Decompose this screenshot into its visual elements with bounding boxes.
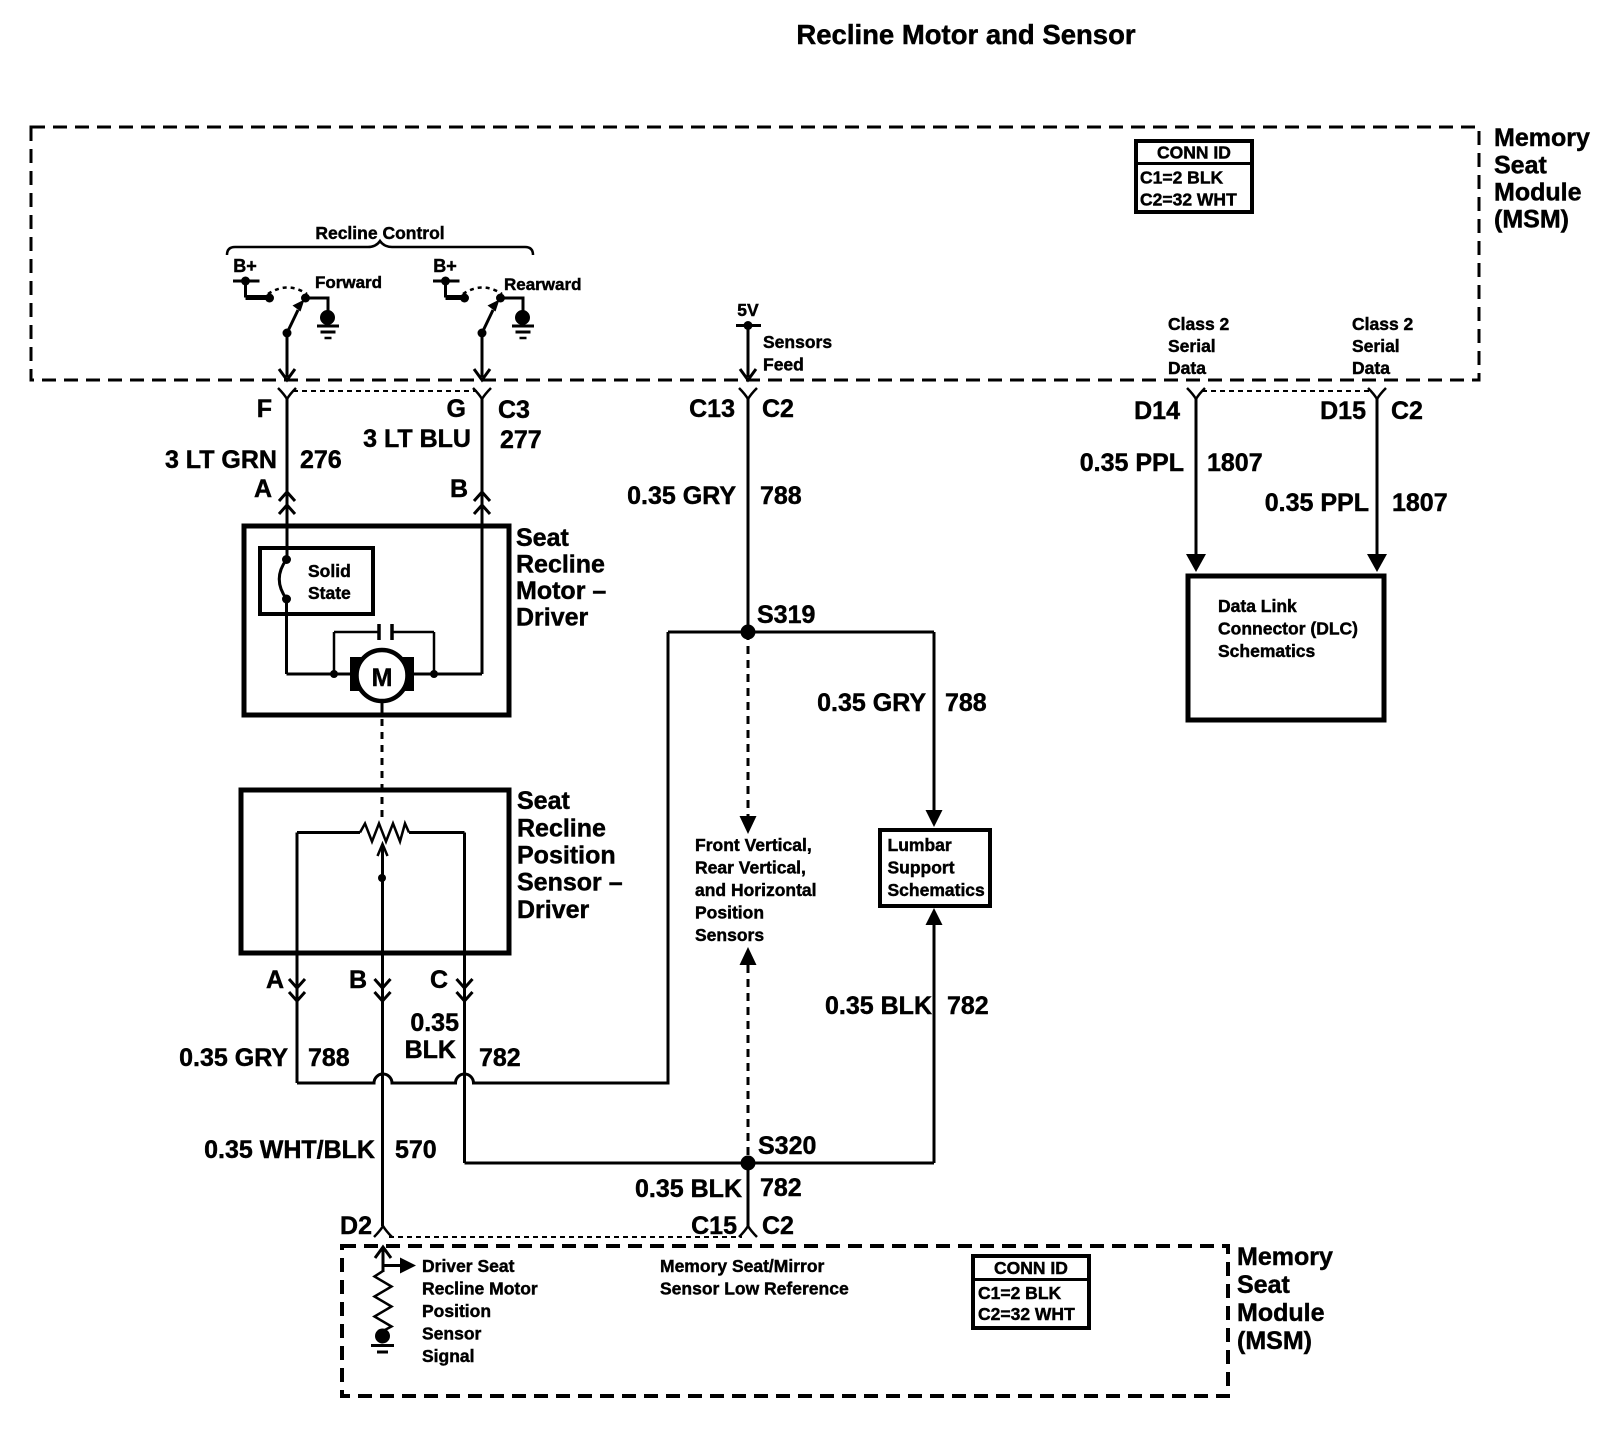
svg-text:CONN ID: CONN ID: [1157, 143, 1231, 163]
svg-text:Sensor: Sensor: [422, 1324, 482, 1344]
svg-text:5V: 5V: [737, 300, 759, 320]
svg-text:CONN ID: CONN ID: [994, 1258, 1068, 1278]
module box Memory Seat Module (MSM) top (dashed): [31, 127, 1479, 380]
label Sensors Feed: [763, 332, 832, 375]
svg-text:Recline: Recline: [517, 815, 606, 843]
module box Memory Seat Module (MSM) bottom (dashed): [342, 1246, 1228, 1396]
svg-text:0.35 BLK: 0.35 BLK: [825, 992, 932, 1020]
motor M (seat recline motor): [350, 650, 414, 701]
box Seat Recline Position Sensor - Driver: [241, 790, 509, 953]
connector fork G: [473, 388, 491, 399]
connector fork D14: [1187, 388, 1205, 399]
wire label 0.35 BLK 782 (pin C): [405, 1009, 521, 1072]
svg-text:782: 782: [760, 1174, 802, 1202]
svg-text:276: 276: [300, 446, 342, 474]
svg-text:Recline Motor: Recline Motor: [422, 1279, 538, 1299]
svg-text:F: F: [257, 395, 272, 423]
svg-text:Sensor Low Reference: Sensor Low Reference: [660, 1279, 849, 1299]
svg-text:B: B: [450, 475, 468, 503]
wire label 0.35 GRY 788 (lumbar): [817, 689, 987, 717]
svg-text:S319: S319: [757, 601, 815, 629]
wire label 0.35 PPL 1807 (D14): [1080, 449, 1263, 477]
svg-text:0.35 PPL: 0.35 PPL: [1265, 489, 1369, 517]
svg-text:Support: Support: [888, 858, 955, 878]
svg-text:B+: B+: [433, 256, 457, 276]
B+ terminal right: [433, 256, 460, 298]
svg-text:0.35 WHT/BLK: 0.35 WHT/BLK: [204, 1136, 375, 1164]
position sensor potentiometer: [297, 824, 465, 954]
svg-text:Feed: Feed: [763, 355, 804, 375]
wire C13 sensors feed to S319 (circuit 788): [747, 399, 750, 632]
svg-text:B+: B+: [233, 256, 257, 276]
svg-text:Data: Data: [1168, 358, 1206, 378]
label Front Vertical Rear Vertical and Horizontal Position Sensors: [695, 835, 817, 945]
wire label 0.35 BLK 782 (C15): [635, 1174, 802, 1203]
wire F from switch to module edge: [279, 333, 295, 380]
svg-text:Sensor –: Sensor –: [517, 869, 623, 897]
svg-text:Memory: Memory: [1494, 124, 1590, 152]
svg-text:0.35 GRY: 0.35 GRY: [179, 1044, 288, 1072]
svg-text:Front Vertical,: Front Vertical,: [695, 835, 812, 855]
svg-text:0.35 GRY: 0.35 GRY: [627, 482, 736, 510]
pin label F: [257, 395, 272, 423]
pin label C2 (right): [1391, 397, 1423, 425]
svg-text:C2=32 WHT: C2=32 WHT: [1140, 190, 1237, 210]
wire G from switch to module edge: [474, 333, 490, 380]
svg-text:Motor –: Motor –: [516, 577, 606, 605]
svg-text:Class 2: Class 2: [1352, 314, 1414, 334]
svg-text:782: 782: [479, 1044, 521, 1072]
wire S320 horizontal: [465, 1162, 935, 1165]
label Memory Seat Module (MSM) bottom right: [1237, 1243, 1333, 1355]
connector ID table top (CONN ID C1=2 BLK C2=32 WHT): [1136, 141, 1252, 212]
svg-text:Schematics: Schematics: [888, 880, 986, 900]
wire F to motor box (circuit 276): [286, 399, 289, 526]
B+ terminal left: [233, 256, 260, 298]
box Data Link Connector (DLC) Schematics: [1188, 576, 1384, 720]
label Seat Recline Position Sensor - Driver: [517, 787, 623, 924]
pin label C13: [689, 395, 735, 423]
svg-text:D14: D14: [1134, 397, 1180, 425]
connector fork F: [278, 388, 296, 399]
svg-text:Seat: Seat: [1494, 152, 1547, 180]
svg-text:B: B: [349, 966, 367, 994]
pin label B (motor): [450, 475, 468, 503]
svg-text:S320: S320: [758, 1132, 816, 1160]
svg-text:0.35 BLK: 0.35 BLK: [635, 1175, 742, 1203]
svg-text:788: 788: [945, 689, 987, 717]
wire into solid state: [286, 526, 289, 560]
title Recline Motor and Sensor: [796, 19, 1136, 50]
label Seat Recline Motor - Driver: [516, 524, 606, 632]
label S320: [758, 1132, 816, 1160]
svg-text:Forward: Forward: [315, 273, 382, 292]
svg-text:788: 788: [760, 482, 802, 510]
inline connector chevrons pin B: [375, 979, 391, 1001]
inline connector chevrons wire F: [279, 492, 295, 514]
wire D15 class 2 serial data (circuit 1807): [1367, 399, 1387, 572]
svg-text:Memory: Memory: [1237, 1243, 1333, 1271]
svg-text:Sensors: Sensors: [695, 925, 764, 945]
svg-text:Schematics: Schematics: [1218, 641, 1316, 661]
inline connector chevrons wire G: [474, 492, 490, 514]
wire G to motor box (circuit 277): [481, 399, 484, 526]
svg-text:Driver Seat: Driver Seat: [422, 1256, 515, 1276]
pin label A (motor): [254, 475, 272, 503]
pin label A (sensor): [266, 966, 284, 994]
svg-text:Position: Position: [695, 903, 764, 923]
svg-text:Driver: Driver: [517, 896, 590, 924]
svg-text:Lumbar: Lumbar: [888, 835, 952, 855]
svg-text:Module: Module: [1237, 1299, 1325, 1327]
svg-text:Seat: Seat: [1237, 1271, 1290, 1299]
svg-text:A: A: [254, 475, 272, 503]
wire label 3 LT GRN 276: [165, 446, 342, 474]
ground (bottom MSM): [371, 1329, 394, 1353]
connector fork D15: [1368, 388, 1386, 399]
svg-text:Recline Motor and Sensor: Recline Motor and Sensor: [796, 19, 1136, 50]
wire S319 to lumbar support (circuit 788): [926, 632, 943, 827]
svg-text:Rearward: Rearward: [504, 275, 581, 294]
pin label D2: [340, 1212, 372, 1240]
wire D14 class 2 serial data (circuit 1807): [1186, 399, 1206, 572]
wire solid state to motor left brush: [287, 599, 351, 674]
connector fork D2: [374, 1226, 392, 1237]
connector pair line D2-C15 (fine dashed): [389, 1236, 742, 1238]
dashed mechanical link motor to position sensor: [381, 719, 384, 820]
label Forward: [315, 273, 382, 292]
svg-text:Solid: Solid: [308, 561, 351, 581]
connector ID table bottom (CONN ID C1=2 BLK C2=32 WHT): [973, 1256, 1089, 1328]
pin label C (sensor): [430, 966, 448, 994]
svg-text:Driver: Driver: [516, 604, 589, 632]
label Memory Seat/Mirror Sensor Low Reference: [660, 1256, 849, 1299]
svg-text:Serial: Serial: [1352, 336, 1400, 356]
svg-text:Module: Module: [1494, 179, 1582, 207]
svg-text:Sensors: Sensors: [763, 332, 832, 352]
brace recline control: [227, 241, 533, 255]
pin label C3: [498, 396, 530, 424]
label Class 2 Serial Data (D14): [1168, 314, 1230, 378]
solid state switch arc: [279, 555, 291, 604]
svg-text:Position: Position: [422, 1301, 491, 1321]
svg-text:C2: C2: [1391, 397, 1423, 425]
svg-text:M: M: [372, 664, 393, 692]
svg-text:Position: Position: [517, 842, 616, 870]
svg-text:C2: C2: [762, 395, 794, 423]
box Lumbar Support Schematics: [880, 830, 990, 906]
pin label G: [447, 395, 466, 423]
svg-text:3 LT BLU: 3 LT BLU: [363, 425, 471, 453]
ground right switch: [512, 310, 534, 338]
svg-text:C13: C13: [689, 395, 735, 423]
svg-text:Seat: Seat: [517, 787, 570, 815]
svg-text:(MSM): (MSM): [1494, 206, 1569, 234]
capacitor across motor: [330, 624, 438, 678]
sensor signal input arrow (D2 internal): [375, 1247, 416, 1274]
pin label C15: [691, 1212, 737, 1240]
resistor (sensor signal pull): [375, 1271, 392, 1331]
svg-text:(MSM): (MSM): [1237, 1327, 1312, 1355]
inline connector chevrons pin C: [457, 979, 473, 1001]
pin label C2 (bottom): [762, 1212, 794, 1240]
motor output stub: [381, 701, 384, 716]
connector pair line D14-D15 (fine dashed): [1202, 390, 1371, 392]
solid state box: [260, 548, 373, 614]
pin label B (sensor): [349, 966, 367, 994]
wire pin C down (circuit 782): [463, 953, 466, 1163]
switch Forward (recline control): [246, 288, 329, 338]
wire label 0.35 WHT/BLK 570 (pin B): [204, 1136, 437, 1164]
pin label C2 (top): [762, 395, 794, 423]
wire lumbar support to S320 (circuit 782, up arrow): [926, 908, 943, 1163]
svg-text:C15: C15: [691, 1212, 737, 1240]
label Recline Control: [315, 223, 444, 243]
svg-text:Data: Data: [1352, 358, 1390, 378]
svg-text:Data Link: Data Link: [1218, 596, 1297, 616]
svg-text:Memory Seat/Mirror: Memory Seat/Mirror: [660, 1256, 825, 1276]
wire label 0.35 BLK 782 (lumbar): [825, 992, 989, 1020]
svg-text:0.35 PPL: 0.35 PPL: [1080, 449, 1184, 477]
dashed wire position sensors to S320 (up arrow): [740, 947, 757, 1163]
svg-text:0.35 GRY: 0.35 GRY: [817, 689, 926, 717]
svg-text:C3: C3: [498, 396, 530, 424]
label Memory Seat Module (MSM) top right: [1494, 124, 1590, 234]
svg-text:C2: C2: [762, 1212, 794, 1240]
box Seat Recline Motor - Driver: [244, 526, 509, 715]
svg-text:D2: D2: [340, 1212, 372, 1240]
svg-text:Connector (DLC): Connector (DLC): [1218, 619, 1358, 639]
splice S319: [741, 625, 756, 640]
svg-text:788: 788: [308, 1044, 350, 1072]
svg-text:and Horizontal: and Horizontal: [695, 880, 817, 900]
wire label 0.35 GRY 788 (pin A): [179, 1044, 350, 1072]
ground left switch: [317, 310, 339, 338]
svg-text:D15: D15: [1320, 397, 1366, 425]
connector fork C13: [739, 388, 757, 399]
wire pin B down (circuit 570): [381, 953, 384, 1226]
svg-text:1807: 1807: [1207, 449, 1263, 477]
svg-text:Recline: Recline: [516, 551, 605, 579]
label S319: [757, 601, 815, 629]
svg-text:C1=2 BLK: C1=2 BLK: [1140, 168, 1224, 188]
svg-text:Signal: Signal: [422, 1346, 475, 1366]
svg-text:C: C: [430, 966, 448, 994]
label Rearward: [504, 275, 581, 294]
pin label D15: [1320, 397, 1366, 425]
svg-text:570: 570: [395, 1136, 437, 1164]
label Driver Seat Recline Motor Position Sensor Signal: [422, 1256, 538, 1366]
dashed wire S319 to position sensors (down arrow): [740, 632, 757, 834]
wire S320 to C15 (circuit 782): [747, 1163, 750, 1226]
wire label 3 LT BLU 277: [363, 425, 542, 454]
wire label 0.35 GRY 788 (feed): [627, 482, 802, 510]
connector pair line F-G (fine dashed): [293, 390, 477, 392]
wire B into motor right brush: [414, 526, 482, 674]
inline connector chevrons pin A: [289, 979, 305, 1001]
wire pin A down (circuit 788): [296, 953, 299, 1083]
svg-text:BLK: BLK: [405, 1036, 456, 1064]
svg-text:Class 2: Class 2: [1168, 314, 1230, 334]
svg-text:G: G: [447, 395, 466, 423]
svg-text:1807: 1807: [1392, 489, 1448, 517]
wire pin A to S319 riser (with hops over B and C): [297, 632, 668, 1083]
svg-text:782: 782: [947, 992, 989, 1020]
5V sensors feed terminal: [736, 300, 761, 380]
splice S320: [741, 1156, 756, 1171]
svg-text:Serial: Serial: [1168, 336, 1216, 356]
svg-text:A: A: [266, 966, 284, 994]
svg-text:C2=32 WHT: C2=32 WHT: [978, 1304, 1075, 1324]
svg-text:3 LT GRN: 3 LT GRN: [165, 446, 277, 474]
svg-text:277: 277: [500, 426, 542, 454]
potentiometer wiper arrow: [378, 844, 388, 953]
label Class 2 Serial Data (D15): [1352, 314, 1414, 378]
wire S319 horizontal: [668, 631, 934, 634]
switch Rearward (recline control): [446, 288, 524, 338]
svg-text:C1=2 BLK: C1=2 BLK: [978, 1283, 1062, 1303]
svg-text:Seat: Seat: [516, 524, 569, 552]
svg-text:0.35: 0.35: [410, 1009, 459, 1037]
svg-text:State: State: [308, 583, 351, 603]
svg-text:Rear Vertical,: Rear Vertical,: [695, 858, 806, 878]
pin label D14: [1134, 397, 1180, 425]
connector fork C15: [739, 1226, 757, 1237]
wire label 0.35 PPL 1807 (D15): [1265, 489, 1448, 517]
